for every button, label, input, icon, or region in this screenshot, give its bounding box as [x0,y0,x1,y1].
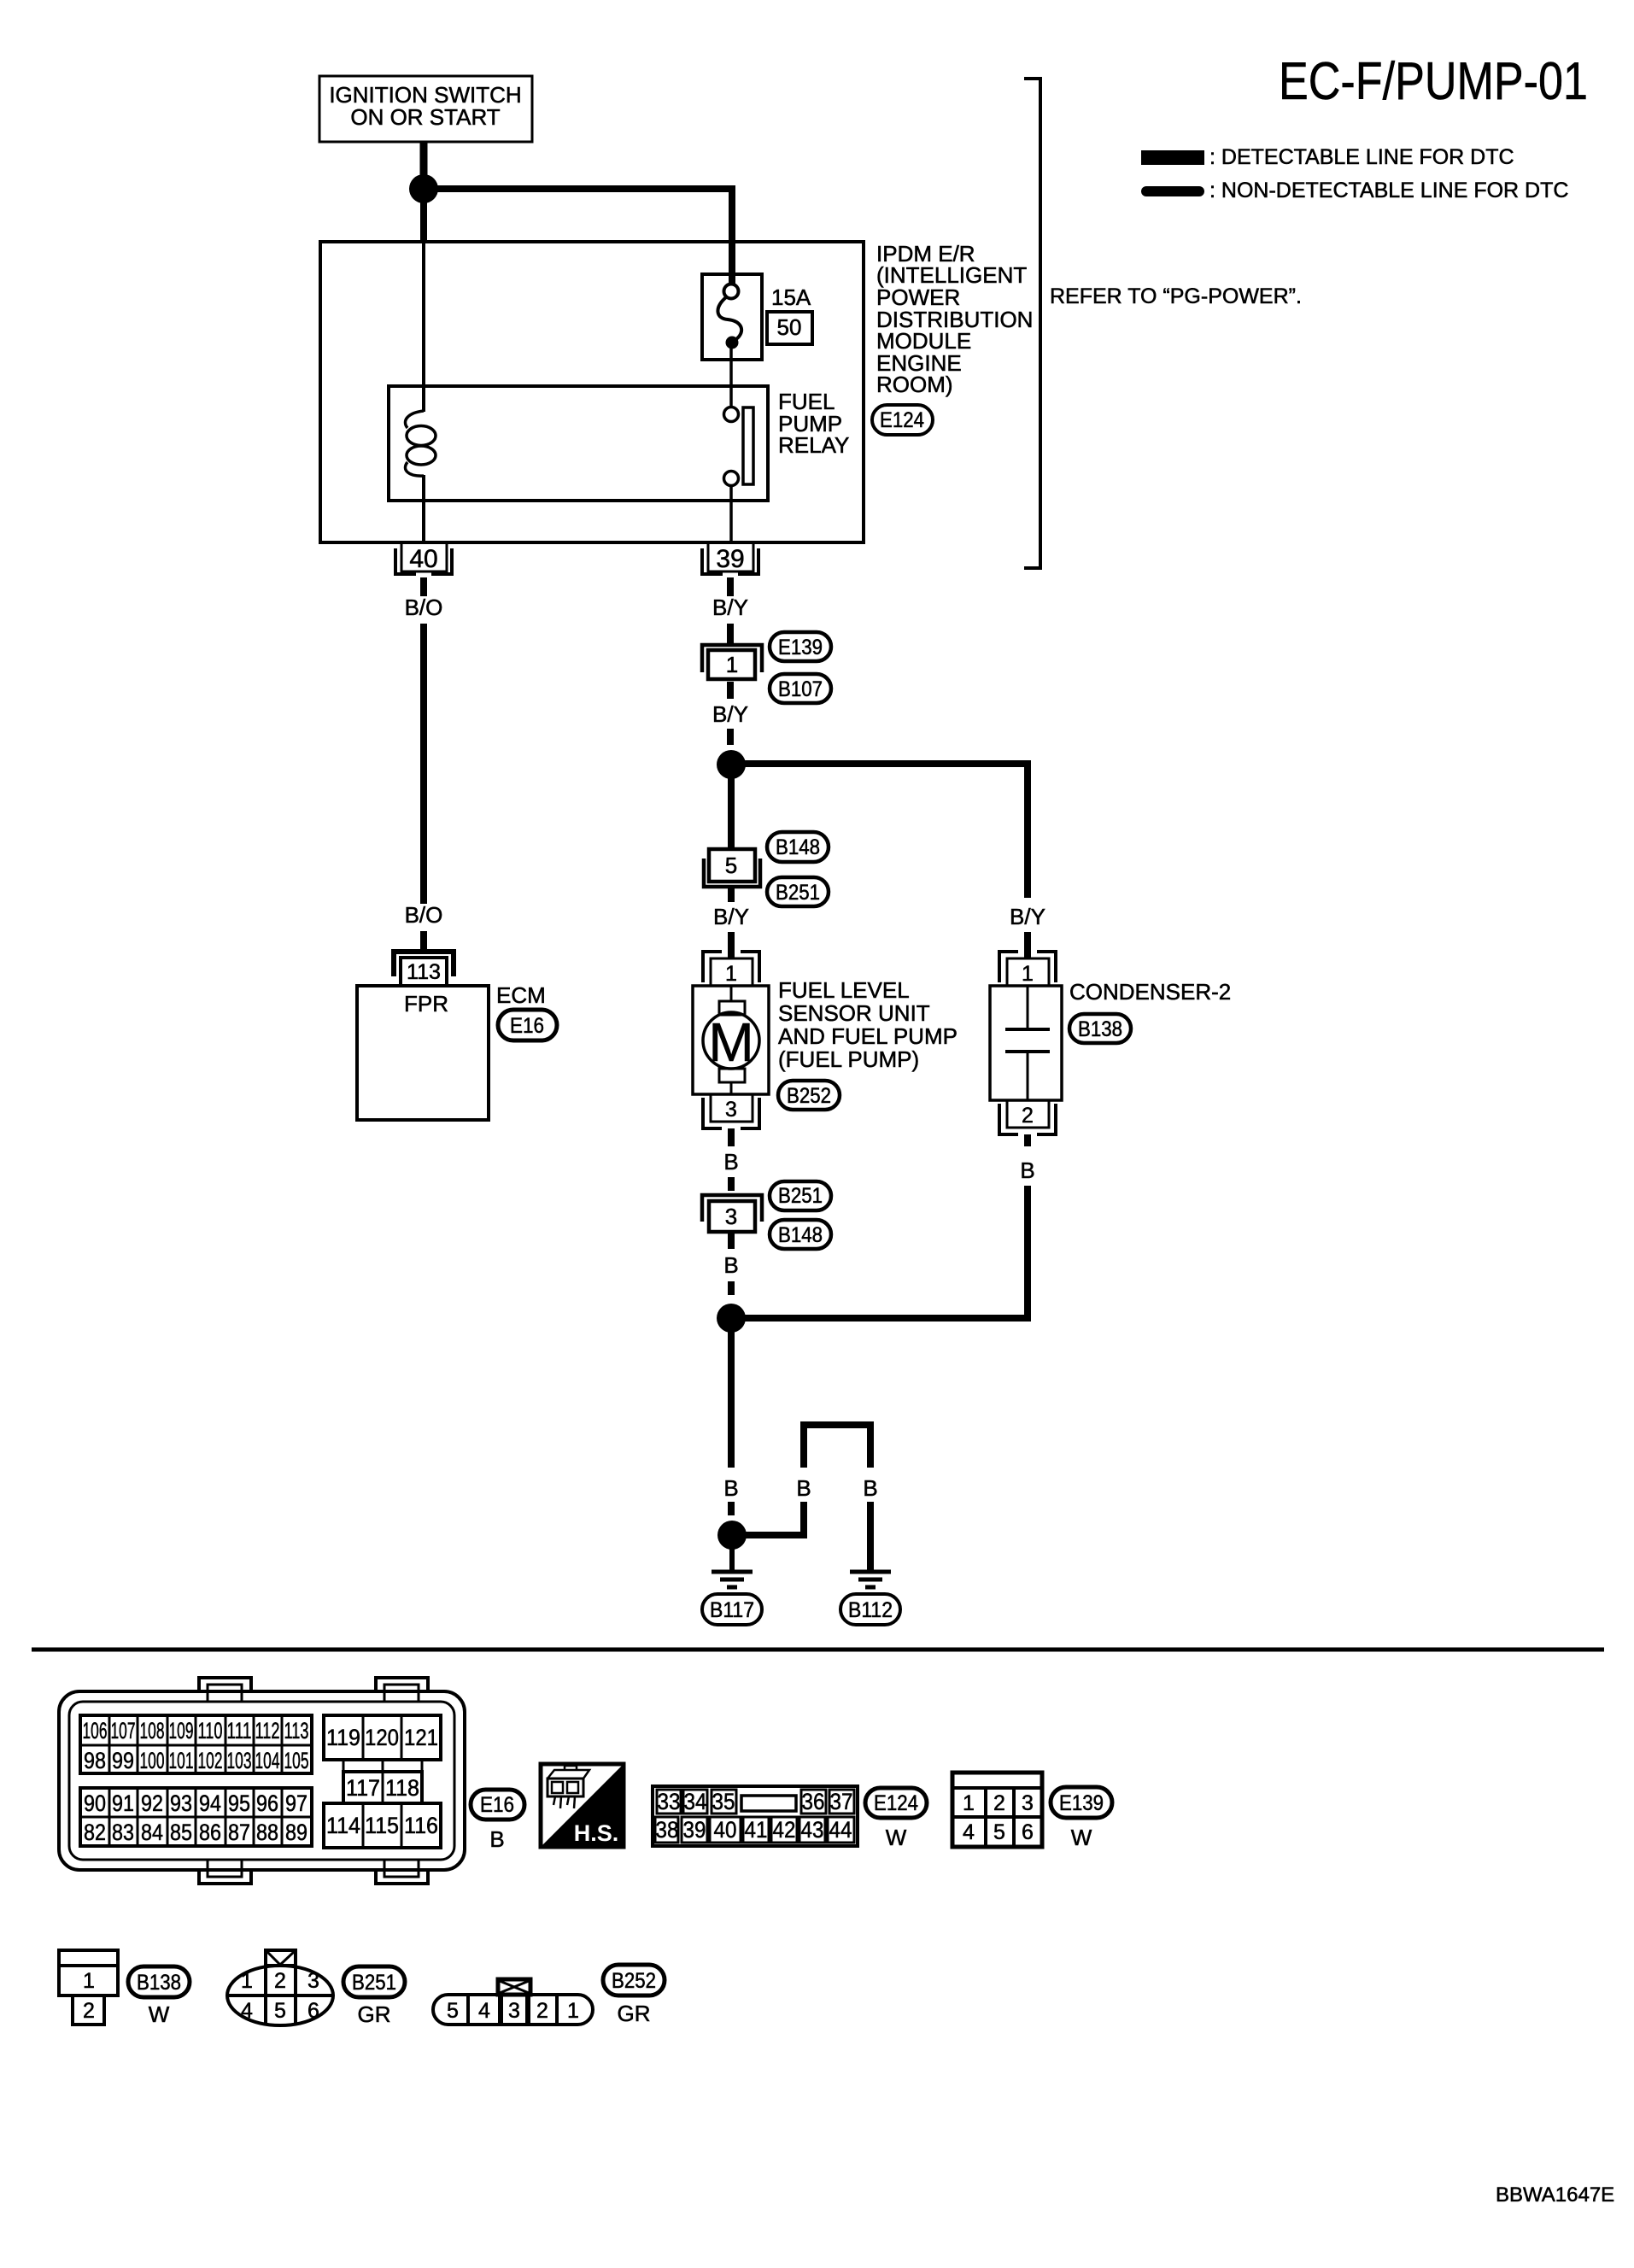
B138 condenser connector [59,1950,118,2025]
svg-text:: NON-DETECTABLE LINE FOR DTC: : NON-DETECTABLE LINE FOR DTC [1209,179,1568,202]
fuel pump body [693,986,769,1094]
svg-text:3: 3 [1022,1791,1034,1815]
wire coil branch inside IPDM [422,242,425,412]
svg-text:B: B [1020,1157,1034,1183]
svg-text:113: 113 [407,960,441,984]
svg-text:E16: E16 [510,1014,544,1038]
svg-text:W: W [149,2001,170,2027]
svg-text:: DETECTABLE LINE FOR DTC: : DETECTABLE LINE FOR DTC [1209,145,1514,169]
svg-text:93: 93 [170,1790,192,1816]
svg-text:B: B [723,1252,738,1278]
wire node down to IPDM [420,189,427,242]
ground B117 [712,1546,753,1587]
svg-text:109: 109 [169,1718,194,1743]
connector ref B251 lower [770,1181,831,1210]
connector 39 [702,542,758,574]
svg-text:40: 40 [409,545,437,573]
svg-text:97: 97 [285,1790,307,1816]
svg-text:89: 89 [285,1820,307,1845]
wire corner down to fuse [729,185,735,284]
condenser connector 2 [999,1100,1056,1134]
connector ref B117 [702,1594,762,1625]
svg-text:110: 110 [198,1718,223,1743]
svg-text:4: 4 [241,1999,253,2023]
connector ref E139 [770,632,831,661]
wire junction down to connector 5 [728,765,735,851]
wire to E139 connector [727,624,734,644]
fuse symbol [724,284,739,299]
svg-text:FPR: FPR [404,991,448,1017]
svg-text:50: 50 [777,314,802,340]
E16 pin grid right [324,1715,441,1848]
svg-text:B251: B251 [778,1184,823,1208]
svg-text:B138: B138 [137,1971,181,1995]
svg-text:1: 1 [567,1999,579,2023]
connector ref B148 lower [770,1220,831,1249]
svg-text:H.S.: H.S. [574,1820,619,1846]
connector ref B112 [840,1594,900,1625]
svg-text:5: 5 [274,1999,286,2023]
connector ref B138 [1069,1014,1131,1043]
svg-text:5: 5 [993,1820,1005,1844]
svg-text:107: 107 [111,1718,136,1743]
wire node to fuse (horizontal) [424,185,735,192]
svg-text:B/O: B/O [405,902,443,928]
svg-text:83: 83 [112,1820,134,1845]
bracket right [1024,77,1040,570]
connector 1 E139/B107 [702,645,762,679]
connector 113 ECM [394,952,454,986]
svg-text:B: B [489,1826,504,1852]
connector ref E16 label [471,1790,524,1820]
E16 pin grid lower-left [80,1788,312,1846]
wire stub below pump 3 [728,1128,735,1146]
svg-text:6: 6 [1022,1820,1034,1844]
svg-text:AND FUEL PUMP: AND FUEL PUMP [778,1023,958,1049]
legend detectable line sample [1141,150,1204,165]
svg-text:GR: GR [358,2001,391,2027]
node junction dot top [409,174,438,203]
svg-text:ROOM): ROOM) [876,372,953,397]
svg-text:43: 43 [801,1817,824,1843]
svg-text:108: 108 [140,1718,165,1743]
relay contact bar [743,407,753,484]
svg-text:1: 1 [241,1969,253,1993]
svg-text:3: 3 [307,1969,319,1993]
wire middle leg to dot (horizontal) [743,1532,807,1538]
dashed wire pump to 3 [728,1177,735,1191]
wire fuse to relay contact [729,343,733,407]
svg-text:B: B [723,1149,738,1175]
ignition switch box [319,76,532,142]
pump connector 3 [703,1094,759,1128]
svg-text:4: 4 [478,1999,490,2023]
connector ref E16 [498,1010,557,1040]
svg-text:SENSOR UNIT: SENSOR UNIT [778,1000,930,1026]
svg-text:3: 3 [725,1098,737,1122]
svg-text:105: 105 [284,1748,309,1773]
svg-text:CONDENSER-2: CONDENSER-2 [1069,979,1231,1005]
svg-text:6: 6 [307,1999,319,2023]
wire ignition to node [420,142,428,176]
svg-text:104: 104 [255,1748,280,1773]
svg-text:94: 94 [199,1790,221,1816]
svg-text:B/Y: B/Y [712,595,748,620]
svg-text:B/Y: B/Y [713,904,749,929]
pump internal wires [730,986,733,1001]
svg-text:117: 117 [346,1775,380,1801]
svg-text:EC-F/PUMP-01: EC-F/PUMP-01 [1279,52,1588,111]
wire to condenser connector [1024,932,1031,958]
B252 fuel pump connector [433,1979,593,2025]
svg-text:(FUEL PUMP): (FUEL PUMP) [778,1046,919,1072]
svg-text:34: 34 [684,1789,707,1814]
node ground junction dot [717,1521,747,1550]
svg-text:40: 40 [714,1817,737,1843]
svg-text:M: M [708,1011,753,1073]
svg-text:111: 111 [227,1718,252,1743]
svg-text:15A: 15A [771,284,811,310]
connector ref B107 [770,674,831,703]
svg-text:120: 120 [365,1725,399,1750]
wire stub below connector 1 [727,682,734,699]
relay contact bottom [724,472,739,486]
svg-text:38: 38 [656,1817,679,1843]
wire stub below 3 [728,1230,735,1249]
condenser connector 1 [999,952,1056,986]
svg-text:B: B [723,1475,738,1501]
svg-text:BBWA1647E: BBWA1647E [1496,2183,1614,2206]
svg-text:87: 87 [228,1820,250,1845]
svg-text:B148: B148 [778,1223,823,1247]
H.S. view icon [541,1764,624,1847]
svg-text:44: 44 [829,1817,852,1843]
svg-text:35: 35 [712,1789,735,1814]
jumper loop top [804,1425,870,1468]
connector ref E124 [872,405,933,435]
svg-text:3: 3 [508,1999,520,2023]
svg-text:5: 5 [725,853,737,878]
svg-text:103: 103 [227,1748,252,1773]
svg-text:E139: E139 [778,636,823,659]
svg-text:84: 84 [141,1820,163,1845]
svg-text:W: W [1071,1825,1092,1850]
svg-text:1: 1 [83,1969,95,1993]
ground B112 [850,1572,891,1587]
svg-text:96: 96 [256,1790,278,1816]
svg-text:1: 1 [1022,962,1034,986]
dashed wire to ground node [728,1281,735,1295]
E16 ECM connector outline [59,1678,465,1884]
svg-text:2: 2 [274,1969,286,1993]
svg-text:2: 2 [1022,1104,1034,1128]
pump brush bottom [719,1069,745,1082]
svg-text:121: 121 [404,1725,438,1750]
svg-text:2: 2 [536,1999,548,2023]
svg-text:FUEL LEVEL: FUEL LEVEL [778,977,910,1003]
pump brush top [719,1001,745,1015]
svg-text:B: B [863,1475,877,1501]
svg-text:36: 36 [802,1789,825,1814]
svg-text:REFER TO “PG-POWER”.: REFER TO “PG-POWER”. [1050,284,1302,308]
svg-text:B: B [796,1475,811,1501]
wire 40 stub [420,577,427,596]
svg-text:98: 98 [84,1748,106,1773]
pump connector 1 [703,952,759,986]
wire relay to connector 39 [729,485,733,544]
svg-text:113: 113 [284,1718,309,1743]
svg-text:101: 101 [169,1748,194,1773]
svg-text:4: 4 [963,1820,975,1844]
E124 IPDM connector grid [653,1786,858,1846]
divider line [32,1648,1604,1652]
svg-text:112: 112 [255,1718,280,1743]
connector ref B138 bottom [128,1966,190,1997]
svg-text:1: 1 [725,962,737,986]
dashed wire segment [727,729,734,745]
svg-text:119: 119 [326,1725,360,1750]
connector 40 [395,542,452,574]
svg-text:92: 92 [141,1790,163,1816]
svg-text:B112: B112 [848,1598,893,1622]
wire condenser to junction (horizontal) [731,1315,1031,1322]
wire stub below connector 5 [728,885,735,902]
svg-text:2: 2 [83,1999,95,2023]
svg-text:B138: B138 [1078,1017,1122,1041]
condenser body [990,986,1062,1100]
svg-text:ON OR START: ON OR START [350,104,500,130]
wire right leg down [867,1502,874,1570]
svg-text:B107: B107 [778,677,823,701]
fuse number 50 box [767,312,812,344]
svg-text:39: 39 [716,545,744,573]
wire to pump connector [728,932,735,958]
svg-text:99: 99 [112,1748,134,1773]
wire 39 stub [727,577,734,596]
svg-text:5: 5 [447,1999,459,2023]
node junction dot B/Y [717,750,746,779]
svg-text:33: 33 [658,1789,681,1814]
svg-text:82: 82 [84,1820,106,1845]
relay coil [405,411,436,476]
svg-text:95: 95 [228,1790,250,1816]
svg-text:B251: B251 [776,881,820,905]
fuel pump relay box [389,386,768,501]
wire junction down [728,1318,735,1468]
svg-text:88: 88 [256,1820,278,1845]
svg-text:B/Y: B/Y [1010,904,1045,929]
svg-text:2: 2 [993,1791,1005,1815]
svg-text:B/O: B/O [405,595,443,620]
B251 fuel tank connector [227,1950,333,2025]
svg-text:42: 42 [773,1817,796,1843]
svg-text:90: 90 [84,1790,106,1816]
svg-text:1: 1 [963,1791,975,1815]
connector ref E139 bottom [1051,1787,1112,1818]
svg-text:1: 1 [726,652,738,677]
connector 5 B148/B251 [704,849,760,887]
wire middle leg down [800,1502,807,1538]
svg-text:E124: E124 [880,408,924,432]
svg-text:115: 115 [365,1813,399,1838]
svg-text:3: 3 [725,1204,737,1229]
svg-text:W: W [886,1825,907,1850]
svg-text:100: 100 [140,1748,165,1773]
wire condenser down [1024,1186,1031,1322]
svg-text:GR: GR [618,2001,651,2026]
svg-text:39: 39 [683,1817,706,1843]
E139 connector grid [952,1773,1042,1847]
wire B/O long [420,624,427,904]
svg-text:37: 37 [830,1789,853,1814]
svg-text:102: 102 [198,1748,223,1773]
pump motor circle [703,1012,759,1069]
svg-text:116: 116 [404,1813,438,1838]
svg-text:B252: B252 [787,1084,831,1108]
legend non-detectable line sample [1141,186,1204,196]
wire coil to connector 40 [422,475,425,544]
condenser plates [1027,986,1029,1028]
svg-text:ECM: ECM [496,982,546,1008]
svg-text:RELAY: RELAY [778,432,849,458]
IPDM E/R box [320,242,864,542]
connector ref E124 bottom [865,1788,927,1818]
svg-text:B252: B252 [612,1969,656,1993]
connector 3 B251/B148 [702,1195,762,1232]
connector ref B148 [767,832,829,862]
E16 pin grid upper-left [80,1715,312,1773]
connector ref B252 [778,1081,840,1110]
svg-text:41: 41 [745,1817,768,1843]
connector ref B251 bottom [343,1966,405,1997]
fuse 15A box [702,274,762,360]
svg-text:91: 91 [112,1790,134,1816]
svg-text:85: 85 [170,1820,192,1845]
svg-text:B/Y: B/Y [712,701,748,727]
relay contact top [724,407,739,422]
node junction dot B [717,1304,746,1333]
wire to ECM 113 [420,931,427,952]
svg-text:B117: B117 [710,1598,754,1622]
svg-text:B148: B148 [776,835,820,859]
wire stub below condenser 2 [1024,1134,1031,1146]
connector ref B251 [767,877,829,906]
svg-text:E139: E139 [1059,1791,1104,1815]
svg-text:B251: B251 [352,1971,396,1995]
svg-text:114: 114 [326,1813,360,1838]
svg-text:E16: E16 [480,1793,514,1817]
wire condenser branch down [1024,760,1031,898]
svg-text:E124: E124 [874,1791,918,1815]
wire junction to condenser branch (horizontal) [731,760,1031,767]
connector ref B252 bottom [603,1965,665,1995]
svg-text:86: 86 [199,1820,221,1845]
svg-text:118: 118 [385,1775,419,1801]
ECM box [357,986,489,1120]
svg-text:106: 106 [83,1718,108,1743]
dashed wire to ground dot [728,1502,735,1515]
